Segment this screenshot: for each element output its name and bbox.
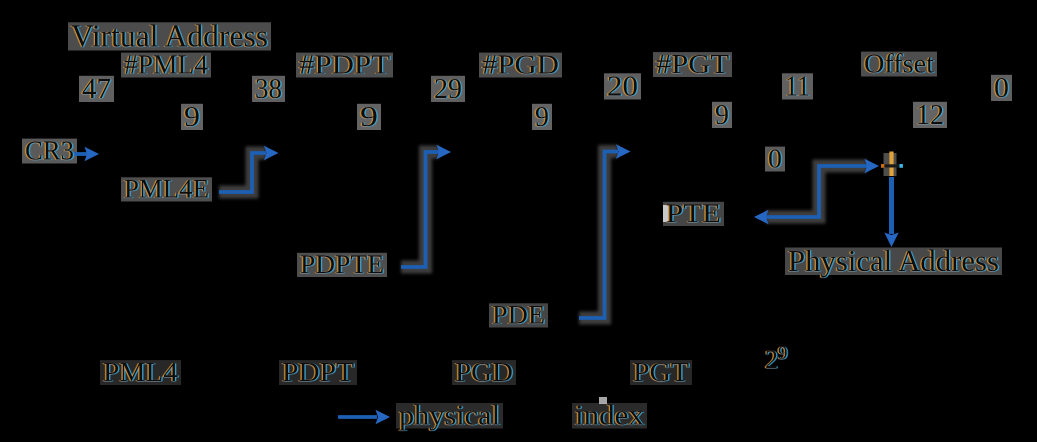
svg-text:Virtual Address: Virtual Address (71, 18, 268, 54)
text: width label 12 (offset field) (916, 99, 944, 131)
text: width label 9 (PGT field) (715, 99, 729, 131)
svg-text:12: 12 (916, 99, 944, 131)
svg-text:PML4E: PML4E (124, 175, 209, 204)
text: field label #PGT (656, 49, 730, 79)
text: table name PDPT (282, 357, 355, 387)
halo box for bit number 20 (604, 73, 641, 99)
svg-text:PGD: PGD (455, 357, 513, 387)
halo for legend arrow: physical (338, 411, 377, 424)
halo box for table name PGT (630, 360, 692, 385)
halo for arrow: adder to Physical Address (885, 177, 898, 234)
halo for arrow: PGT entry to PTE and PTE frame to adder (physical) (766, 166, 867, 217)
halo box for field label #PML4 (121, 53, 211, 78)
svg-text:9: 9 (360, 101, 378, 133)
svg-text:20: 20 (607, 71, 638, 103)
text: field label Offset (864, 49, 935, 79)
halo box for legend text: physical (396, 403, 503, 429)
text: register CR3 (25, 136, 74, 166)
halo box for field label #PGD (479, 53, 562, 78)
halo for arrow: PDE to PGT table base (physical) (579, 152, 618, 319)
halo for arrow: PML4E to PDPT table base (physical) (219, 153, 266, 192)
svg-text:0: 0 (768, 144, 782, 174)
halo box for legend text: index (572, 403, 647, 429)
halo box for table name PML4 (100, 360, 181, 385)
text: table name PGD (455, 357, 513, 387)
text: bit number 0 (top right) (994, 72, 1009, 104)
text: legend text: physical (399, 401, 500, 432)
text: bit number 20 (607, 71, 638, 103)
text: field label #PGD (482, 50, 559, 80)
halo box for width label 9 (PGD field) (532, 104, 552, 130)
halo box for bit number 47 (79, 76, 114, 102)
text: title: Virtual Address (71, 18, 268, 54)
svg-text:#PDPT: #PDPT (299, 50, 391, 80)
svg-text:29: 29 (434, 73, 462, 105)
svg-text:index: index (575, 401, 644, 432)
svg-text:PML4: PML4 (103, 357, 179, 387)
halo box for field label #PGT (653, 52, 732, 77)
svg-text:0: 0 (994, 72, 1009, 104)
svg-text:PDPTE: PDPTE (300, 250, 384, 279)
svg-text:#PGD: #PGD (482, 50, 559, 80)
halo box for entry label PDPTE (297, 253, 387, 277)
adder plus sign: dark horizontal bar with orange/cyan tips (881, 164, 903, 168)
text: legend text: index (575, 401, 644, 432)
legend arrow: physical (338, 410, 390, 424)
halo box for table name PGD (452, 360, 516, 385)
text: field label #PML4 (124, 50, 208, 80)
halo box for title: Physical Address (785, 248, 1002, 276)
arrow: PDE to PGT table base (physical) (579, 144, 631, 318)
text: table name PML4 (103, 357, 179, 387)
svg-text:#PML4: #PML4 (124, 50, 208, 80)
arrow: PDPTE to PGD table base (physical) (401, 145, 451, 267)
text: entry label PML4E (124, 175, 209, 204)
svg-text:PDPT: PDPT (282, 357, 355, 387)
arrow: PGT entry to PTE and PTE frame to adder (physical) (754, 159, 879, 224)
text: bit number 0 (PGT table base) (768, 144, 782, 174)
svg-text:PTE: PTE (666, 199, 721, 228)
halo box for bit number 38 (252, 76, 285, 102)
gray halo block behind adder (884, 153, 897, 176)
halo box for entry label PTE (663, 202, 724, 226)
svg-text:9: 9 (715, 99, 729, 131)
svg-text:#PGT: #PGT (656, 49, 730, 79)
white speck above index (599, 397, 607, 404)
text: entry label PDE (492, 301, 545, 330)
halo for arrow: PDPTE to PGD table base (physical) (401, 152, 439, 267)
halo box for bit number 0 (PGT table base) (765, 147, 785, 172)
halo box for field label Offset (861, 52, 937, 77)
halo box for width label 9 (PML4 field) (181, 104, 203, 130)
text: width label 9 (PML4 field) (184, 101, 200, 133)
halo box for bit number 11 (782, 73, 813, 99)
halo box for register CR3 (22, 139, 77, 164)
text: bit number 47 (82, 73, 111, 105)
halo box for width label 9 (PGT field) (712, 102, 732, 128)
svg-text:PGT: PGT (633, 357, 690, 387)
svg-text:physical: physical (399, 401, 500, 432)
halo box for table name PDPT (279, 360, 357, 385)
text: entry label PTE (666, 199, 721, 228)
svg-text:CR3: CR3 (25, 136, 74, 166)
text: field label #PDPT (299, 50, 391, 80)
halo box for bit number 0 (top right) (991, 75, 1012, 101)
text: entry label PDPTE (300, 250, 384, 279)
text: bit number 38 (255, 73, 282, 105)
halo box for entry label PML4E (121, 177, 212, 201)
halo box for title: Virtual Address (68, 22, 271, 50)
svg-text:47: 47 (82, 73, 111, 105)
halo box for entry label PDE (489, 303, 548, 327)
svg-text:11: 11 (785, 71, 810, 103)
svg-text:38: 38 (255, 73, 282, 105)
text: width label 9 (PGD field) (535, 101, 549, 133)
text: bit number 11 (785, 71, 810, 103)
svg-text:PDE: PDE (492, 301, 545, 330)
svg-text:9: 9 (535, 101, 549, 133)
arrow: CR3 to PML4 table base (physical) (72, 147, 99, 161)
svg-text:Physical Address: Physical Address (788, 243, 999, 278)
arrow: adder to Physical Address (884, 177, 898, 247)
text: table name PGT (633, 357, 690, 387)
halo box for bit number 29 (431, 76, 465, 102)
text: width label 9 (PDPT field) (360, 101, 378, 133)
text: bit number 29 (434, 73, 462, 105)
halo box for field label #PDPT (296, 53, 393, 78)
white speck left of PTE (663, 205, 671, 222)
text: title: Physical Address (788, 243, 999, 278)
table size label 2^9 (765, 343, 788, 374)
halo box for width label 9 (PDPT field) (357, 104, 381, 130)
halo for arrow: CR3 to PML4 table base (physical) (72, 148, 87, 161)
halo box for width label 12 (offset field) (913, 102, 947, 128)
arrow: PML4E to PDPT table base (physical) (219, 146, 279, 192)
adder plus sign: yellow vertical bar (889, 152, 893, 177)
svg-text:9: 9 (184, 101, 200, 133)
svg-text:Offset: Offset (864, 49, 935, 79)
